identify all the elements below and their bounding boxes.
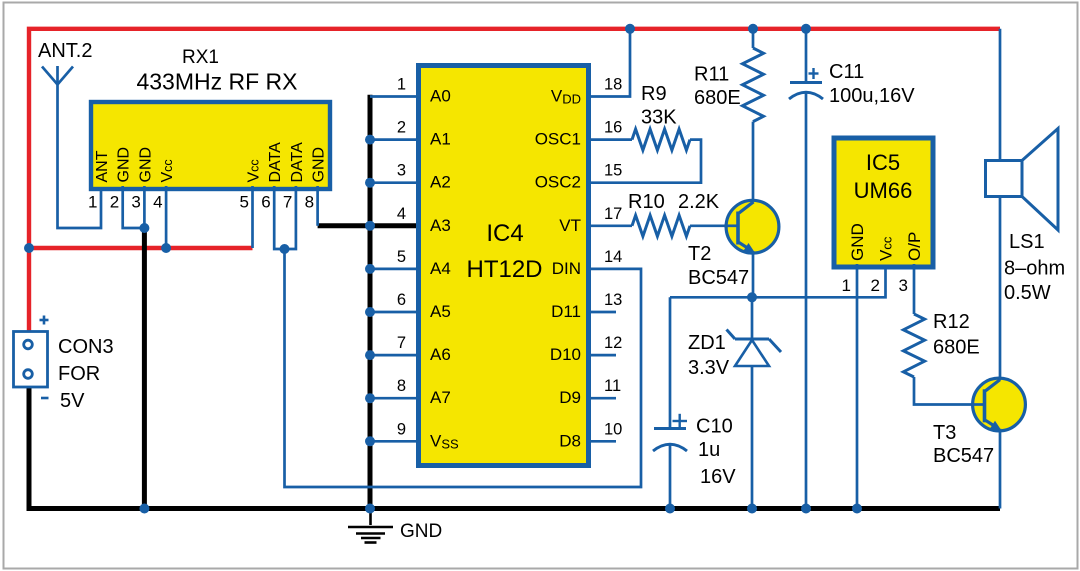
resistor R12 — [903, 314, 924, 377]
svg-text:C10: C10 — [696, 416, 733, 438]
svg-text:OSC2: OSC2 — [535, 173, 581, 192]
IC4 left pin stub wires — [370, 97, 418, 442]
svg-text:BC547: BC547 — [688, 267, 749, 289]
svg-text:O/P: O/P — [905, 232, 924, 261]
IC4 left pin numbers — [397, 76, 406, 439]
wire IC5 O/P — [913, 264, 916, 314]
wire +5V rail (red) — [29, 29, 1000, 331]
svg-text:10: 10 — [604, 420, 622, 438]
svg-text:R9: R9 — [641, 83, 667, 105]
svg-text:8–ohm: 8–ohm — [1004, 258, 1065, 280]
wire +5V to LS1 — [999, 29, 1002, 160]
wire address bus (black) — [368, 95, 373, 509]
transistor T2 base bar — [736, 212, 740, 245]
svg-text:13: 13 — [604, 291, 622, 309]
CON3 plus mark — [40, 316, 49, 325]
svg-text:3: 3 — [899, 276, 908, 295]
svg-text:A2: A2 — [430, 173, 451, 192]
resistor R10 — [632, 215, 690, 236]
capacitor C10 bottom lead — [669, 444, 672, 509]
svg-text:ZD1: ZD1 — [688, 332, 726, 354]
svg-text:GND: GND — [311, 147, 328, 183]
svg-text:T3: T3 — [933, 422, 956, 444]
svg-text:14: 14 — [604, 248, 622, 266]
zener ZD1 cathode bar — [727, 330, 782, 353]
wire T3 emitter to GND bus — [999, 429, 1002, 509]
connector CON3 — [14, 332, 48, 388]
svg-text:R10: R10 — [628, 191, 665, 213]
transistor T2 collector — [739, 202, 754, 213]
wire R12 to T3 base — [914, 377, 984, 405]
svg-text:6: 6 — [397, 291, 406, 309]
label R12 680E — [933, 311, 980, 359]
wire VDD to +5V — [589, 29, 630, 97]
wire RX1 pin8 GND to IC4 A3 (black) — [318, 223, 418, 228]
wire RX1 pin2 GND — [123, 186, 145, 228]
svg-text:2: 2 — [871, 276, 880, 295]
label R9 33K — [641, 83, 677, 129]
capacitor C10 top lead — [669, 297, 672, 428]
IC IC5 box — [834, 138, 933, 267]
resistor R11 — [743, 48, 764, 122]
transistor T2 body — [726, 200, 779, 253]
svg-text:0.5W: 0.5W — [1004, 282, 1051, 304]
svg-text:3: 3 — [131, 193, 140, 212]
svg-text:IC5: IC5 — [866, 150, 900, 175]
svg-text:A7: A7 — [430, 388, 451, 407]
wire RX1 pin3 stub — [143, 186, 146, 228]
wire VT — [589, 224, 632, 227]
zener ZD1 top lead — [751, 297, 754, 338]
svg-text:2: 2 — [110, 193, 119, 212]
module RX1 box — [91, 102, 330, 189]
svg-text:A3: A3 — [430, 216, 451, 235]
svg-text:433MHz RF RX: 433MHz RF RX — [136, 69, 297, 95]
svg-text:17: 17 — [604, 205, 622, 223]
svg-text:33K: 33K — [641, 107, 677, 129]
label R11 680E — [694, 64, 741, 110]
RX1 pin numbers 1-8 — [88, 193, 314, 212]
svg-text:D9: D9 — [559, 388, 581, 407]
svg-text:IC4: IC4 — [486, 220, 523, 247]
svg-text:680E: 680E — [933, 337, 980, 359]
resistor R9 — [632, 129, 690, 150]
svg-text:6: 6 — [261, 193, 270, 212]
IC5 pin numbers — [842, 276, 908, 295]
svg-text:RX1: RX1 — [182, 47, 219, 68]
svg-text:15: 15 — [604, 162, 622, 180]
svg-text:UM66: UM66 — [854, 178, 913, 203]
svg-text:12: 12 — [604, 334, 622, 352]
speaker LS1 — [986, 129, 1059, 231]
svg-text:C11: C11 — [829, 61, 864, 83]
transistor T3 emitter — [986, 420, 1002, 430]
svg-text:2: 2 — [397, 119, 406, 137]
svg-text:OSC1: OSC1 — [535, 130, 581, 149]
IC IC4 box — [419, 66, 589, 466]
wire T2 emitter to IC5 Vcc — [670, 264, 886, 297]
label C10 1u 16V — [696, 416, 736, 489]
wire R10 to T2 base — [690, 224, 739, 227]
svg-text:D11: D11 — [551, 302, 581, 321]
svg-text:A4: A4 — [430, 259, 451, 278]
capacitor C10 plates — [653, 429, 687, 452]
svg-text:16V: 16V — [700, 466, 736, 488]
svg-text:2.2K: 2.2K — [678, 191, 720, 213]
svg-text:ANT.2: ANT.2 — [38, 40, 92, 62]
svg-text:R12: R12 — [933, 311, 970, 333]
svg-text:D8: D8 — [559, 431, 581, 450]
svg-text:3: 3 — [397, 162, 406, 180]
svg-text:GND: GND — [137, 147, 154, 183]
wire LS1 to T3 collector — [999, 197, 1002, 380]
svg-text:BC547: BC547 — [933, 445, 994, 467]
svg-text:5: 5 — [397, 248, 406, 266]
wire RX1 pin5 Vcc — [251, 186, 254, 248]
svg-text:DATA: DATA — [289, 142, 306, 183]
svg-text:4: 4 — [397, 205, 406, 223]
svg-text:DATA: DATA — [267, 142, 284, 183]
wire +5V branch to RX1 Vcc (red) — [29, 246, 253, 250]
antenna ANT.2 — [42, 66, 101, 228]
svg-text:18: 18 — [604, 76, 622, 94]
ground — [348, 511, 393, 543]
svg-text:1: 1 — [397, 76, 406, 94]
svg-text:GND: GND — [848, 223, 867, 261]
svg-text:A1: A1 — [430, 130, 451, 149]
svg-text:A5: A5 — [430, 302, 451, 321]
svg-text:1: 1 — [88, 193, 97, 212]
svg-text:680E: 680E — [694, 87, 741, 109]
svg-text:D10: D10 — [550, 345, 581, 364]
svg-text:GND: GND — [116, 147, 133, 183]
capacitor C11 top lead — [805, 29, 808, 82]
svg-text:7: 7 — [397, 334, 406, 352]
wire R9 to OSC2 — [589, 140, 701, 183]
svg-text:DIN: DIN — [552, 259, 581, 278]
IC5 pin names — [848, 223, 924, 261]
label CON3 FOR 5V — [58, 336, 114, 412]
svg-text:16: 16 — [604, 119, 622, 137]
svg-text:R11: R11 — [694, 64, 729, 86]
svg-text:7: 7 — [283, 193, 292, 212]
label LS1 8-ohm 0.5W — [1004, 231, 1065, 304]
capacitor C11 bottom lead — [805, 92, 808, 509]
zener ZD1 anode triangle — [735, 340, 769, 366]
capacitor C11 plates — [789, 83, 823, 100]
svg-text:11: 11 — [604, 377, 621, 395]
svg-text:LS1: LS1 — [1009, 231, 1045, 253]
wire RX1 pin4 Vcc — [165, 186, 168, 248]
wire T2 base inside — [724, 224, 738, 227]
IC4 right pin names — [535, 87, 581, 451]
label ZD1 3.3V — [688, 332, 730, 379]
resistor R11 top lead — [752, 29, 755, 48]
svg-text:9: 9 — [397, 420, 406, 438]
svg-text:3.3V: 3.3V — [688, 357, 730, 379]
wire T3 base inside — [971, 403, 985, 406]
label T2 BC547 — [688, 243, 749, 289]
svg-text:5V: 5V — [60, 390, 85, 412]
transistor T3 body — [973, 378, 1026, 431]
svg-text:1u: 1u — [698, 439, 720, 461]
RX1 pin name labels — [94, 142, 328, 183]
transistor T3 base bar — [983, 389, 987, 422]
wire GND bus (black) — [29, 387, 1000, 509]
svg-text:8: 8 — [305, 193, 314, 212]
resistor R11 bottom lead — [752, 122, 755, 203]
zener ZD1 bottom lead — [751, 366, 754, 509]
wire IC5 GND to bus — [856, 264, 859, 509]
wire RX1 pin3 GND down (black) — [142, 228, 147, 509]
label R10 2.2K — [628, 191, 720, 213]
svg-text:1: 1 — [842, 276, 851, 295]
label C11 100u,16V — [829, 61, 915, 107]
svg-text:CON3: CON3 — [58, 336, 114, 358]
label T3 BC547 — [933, 422, 994, 467]
wire RX1 pins6-7 DATA — [274, 186, 296, 249]
svg-text:100u,16V: 100u,16V — [829, 85, 915, 107]
IC4 data pin stub wires — [589, 312, 616, 441]
C10 plus mark — [673, 414, 688, 428]
transistor T2 emitter — [739, 243, 755, 253]
transistor T3 collector — [986, 380, 1001, 391]
wire OSC1 — [589, 138, 632, 141]
svg-text:VT: VT — [559, 216, 581, 235]
svg-text:A6: A6 — [430, 345, 451, 364]
svg-text:GND: GND — [400, 521, 442, 542]
wire RX1 pin8 stub — [316, 186, 319, 226]
svg-text:ANT: ANT — [94, 150, 111, 182]
wire DATA to IC4 DIN — [285, 249, 642, 487]
svg-text:5: 5 — [240, 193, 249, 212]
svg-text:8: 8 — [397, 377, 406, 395]
wire T2 emitter down — [752, 251, 755, 297]
IC4 right pin numbers — [604, 76, 622, 439]
svg-text:4: 4 — [153, 193, 162, 212]
svg-text:Vcc: Vcc — [246, 159, 263, 182]
IC4 left pin names — [430, 87, 459, 452]
C11 plus mark — [809, 68, 819, 79]
svg-text:T2: T2 — [688, 243, 711, 265]
svg-text:Vcc: Vcc — [159, 159, 176, 182]
svg-text:HT12D: HT12D — [466, 256, 542, 283]
svg-text:FOR: FOR — [58, 363, 100, 385]
svg-text:A0: A0 — [430, 87, 451, 106]
svg-text:Vcc: Vcc — [877, 236, 896, 261]
CON3 minus mark — [41, 397, 49, 400]
